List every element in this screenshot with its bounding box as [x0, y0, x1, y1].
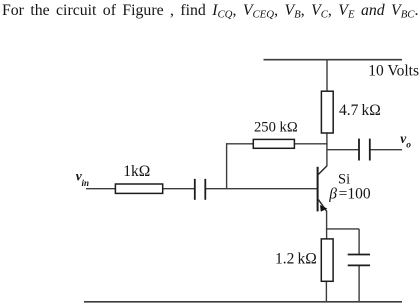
wire emitter branch to bypass capacitor [326, 228, 359, 230]
svg-text:1kΩ: 1kΩ [123, 163, 150, 180]
wire Vcc top rail [264, 59, 403, 61]
resistor RC 4.7 kOhm box [321, 91, 333, 133]
svg-text:vo: vo [400, 131, 411, 150]
capacitor Ci right plate [204, 179, 206, 200]
svg-text:10 Volts: 10 Volts [368, 62, 419, 79]
transistor Q1 collector diagonal [318, 166, 327, 175]
wire RC bottom to collector node [326, 133, 328, 167]
svg-text:β=100: β=100 [328, 186, 371, 203]
svg-text:vin: vin [76, 168, 89, 188]
wire RB right lead to collector node [294, 143, 327, 145]
ground bottom rail [84, 301, 402, 303]
wire RB left lead [227, 143, 254, 145]
svg-text:1.2 kΩ: 1.2 kΩ [275, 250, 317, 267]
transistor Q1 emitter diagonal [318, 200, 326, 212]
resistor RE 1.2 kOhm box [321, 239, 333, 281]
resistor R1 1 kOhm box [115, 184, 162, 193]
svg-text:250 kΩ: 250 kΩ [254, 119, 298, 135]
transistor Q1 base bar [317, 167, 319, 212]
capacitor Ci left plate [194, 179, 196, 200]
wire RE bottom to ground rail [325, 281, 327, 302]
wire feedback tap down to base wire [226, 143, 228, 189]
svg-text:4.7 kΩ: 4.7 kΩ [339, 102, 381, 119]
wire vin lead [86, 188, 115, 190]
resistor RB 250 kOhm box [253, 139, 294, 148]
title text [2, 2, 418, 21]
wire R1 to input capacitor [163, 188, 195, 190]
capacitor Co right plate [369, 139, 371, 161]
capacitor Co left plate [358, 139, 360, 161]
wire base wire [205, 188, 317, 190]
wire CE bottom plate to ground rail [358, 266, 360, 302]
transistor Q1 emitter arrowhead [320, 205, 327, 212]
wire branch down to CE top plate [358, 229, 360, 254]
wire collector node to output capacitor [327, 149, 359, 151]
wire output capacitor to vo [370, 149, 402, 151]
wire emitter down to RE [326, 211, 328, 239]
capacitor CE top plate [348, 254, 370, 256]
capacitor CE bottom plate [348, 264, 370, 266]
wire rail to RC top [326, 60, 328, 92]
